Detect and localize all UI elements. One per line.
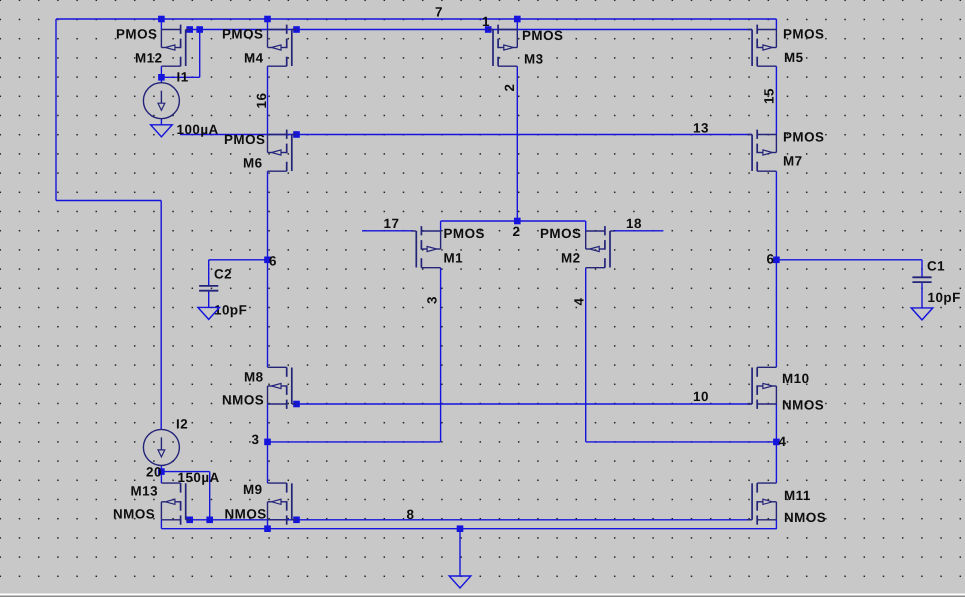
node 4 label rotated bbox=[572, 298, 587, 306]
wire C1 top lead bbox=[921, 260, 923, 278]
node 20 label bbox=[146, 465, 162, 480]
junction M12 gate bbox=[186, 26, 193, 33]
junction node 4 bbox=[773, 439, 780, 446]
node 6 label right bbox=[767, 252, 775, 267]
svg-text:15: 15 bbox=[762, 88, 777, 104]
transistor M12 bbox=[116, 25, 191, 67]
wire node 7 top rail bbox=[56, 18, 776, 20]
svg-text:I1: I1 bbox=[177, 70, 189, 85]
svg-text:3: 3 bbox=[252, 432, 260, 447]
svg-text:M3: M3 bbox=[524, 52, 544, 67]
wire node 20 to M13 drain bbox=[160, 472, 162, 484]
junction M13 gate bbox=[186, 517, 193, 524]
wire node 8 row bbox=[190, 519, 752, 521]
svg-text:8: 8 bbox=[407, 507, 415, 522]
transistor M3 bbox=[488, 25, 563, 67]
wire M10-M11 vertical bbox=[775, 404, 777, 483]
transistor M13 bbox=[113, 483, 191, 525]
wire C2 horizontal bbox=[209, 259, 268, 261]
svg-text:10: 10 bbox=[693, 389, 709, 404]
wire node 2 vertical bbox=[516, 66, 518, 221]
svg-text:PMOS: PMOS bbox=[783, 27, 824, 42]
ground below C1 bbox=[911, 308, 933, 320]
node 2 label rotated bbox=[502, 84, 517, 92]
wire to I2 top bbox=[160, 201, 162, 430]
node 13 label bbox=[693, 121, 709, 136]
wire node 4 horizontal bbox=[586, 441, 777, 443]
svg-text:10pF: 10pF bbox=[214, 303, 247, 318]
wire left feedback vertical bbox=[55, 19, 57, 201]
wire C1 bottom lead bbox=[921, 282, 923, 308]
junction M4 source on rail bbox=[264, 16, 271, 23]
svg-text:PMOS: PMOS bbox=[444, 226, 485, 241]
wire M5 source lead bbox=[775, 19, 777, 30]
node 17 label bbox=[384, 216, 400, 231]
svg-text:M2: M2 bbox=[561, 251, 581, 266]
wire node 3 horizontal bbox=[267, 441, 441, 443]
transistor M5 bbox=[747, 25, 824, 67]
svg-text:PMOS: PMOS bbox=[522, 28, 563, 43]
transistor M8 bbox=[222, 367, 297, 409]
svg-text:4: 4 bbox=[572, 298, 587, 306]
node 3 label bbox=[252, 432, 260, 447]
node 4 label bbox=[779, 434, 787, 449]
svg-text:M11: M11 bbox=[784, 488, 811, 503]
svg-text:150µA: 150µA bbox=[178, 470, 220, 485]
svg-text:NMOS: NMOS bbox=[225, 507, 267, 522]
node 6 label left bbox=[269, 254, 277, 269]
junction node 3 bbox=[264, 439, 271, 446]
wire M1 source bend bbox=[440, 221, 442, 231]
wire node 6 right vertical bbox=[775, 171, 777, 367]
wire M4 source lead bbox=[267, 19, 269, 30]
svg-text:PMOS: PMOS bbox=[783, 130, 824, 145]
svg-text:20: 20 bbox=[146, 465, 162, 480]
svg-text:NMOS: NMOS bbox=[222, 393, 264, 408]
svg-text:100µA: 100µA bbox=[177, 122, 219, 137]
current source I2 bbox=[143, 417, 219, 486]
junction node 20 bbox=[158, 468, 165, 475]
wire left feedback horizontal bbox=[56, 200, 161, 202]
svg-text:6: 6 bbox=[269, 254, 277, 269]
junction diode bottom bbox=[206, 517, 213, 524]
transistor M10 bbox=[747, 367, 824, 412]
svg-text:M8: M8 bbox=[244, 370, 264, 385]
svg-text:18: 18 bbox=[626, 216, 642, 231]
junction node 2 bbox=[514, 218, 521, 225]
node 8 label bbox=[407, 507, 415, 522]
wire M13 source down bbox=[160, 520, 162, 529]
junction M3 source on rail bbox=[514, 16, 521, 23]
junction M12 source on rail bbox=[158, 16, 165, 23]
svg-text:M10: M10 bbox=[782, 371, 810, 386]
ground main bbox=[449, 576, 471, 588]
svg-text:NMOS: NMOS bbox=[782, 398, 824, 413]
wire node 16 M4-M6 bbox=[267, 66, 269, 134]
transistor M4 bbox=[222, 25, 297, 67]
wire M12 diode vertical bbox=[199, 30, 201, 78]
transistor M11 bbox=[747, 483, 826, 525]
svg-text:PMOS: PMOS bbox=[540, 226, 581, 241]
wire C2 top lead bbox=[208, 260, 210, 286]
transistor M2 bbox=[540, 226, 615, 268]
wire C1 horizontal bbox=[776, 259, 922, 261]
current source I1 bbox=[143, 70, 218, 138]
node 7 label bbox=[435, 5, 443, 20]
svg-text:M13: M13 bbox=[131, 484, 159, 499]
wire M12 source lead bbox=[160, 19, 162, 30]
svg-text:M6: M6 bbox=[243, 156, 263, 171]
svg-text:2: 2 bbox=[513, 224, 521, 239]
svg-text:I2: I2 bbox=[176, 417, 188, 432]
junction ground stub bbox=[457, 525, 464, 532]
node 10 label bbox=[693, 389, 709, 404]
ground below C2 bbox=[198, 307, 220, 319]
svg-text:M7: M7 bbox=[783, 154, 803, 169]
node 15 label bbox=[762, 88, 777, 104]
svg-text:17: 17 bbox=[384, 216, 400, 231]
svg-text:M4: M4 bbox=[244, 51, 264, 66]
junction M8 gate bbox=[293, 401, 300, 408]
svg-text:M1: M1 bbox=[444, 251, 464, 266]
transistor M7 bbox=[747, 130, 824, 172]
svg-text:M9: M9 bbox=[243, 482, 263, 497]
wire node 20 diode vertical bbox=[209, 472, 211, 520]
wire M12 drain to I1 bbox=[160, 66, 162, 83]
wire node 18 stub bbox=[613, 230, 663, 232]
svg-text:PMOS: PMOS bbox=[222, 27, 263, 42]
wire node 13 row bbox=[180, 134, 752, 136]
wire ground stub bbox=[459, 529, 461, 576]
capacitor C1 bbox=[912, 259, 960, 306]
wire node 10 row bbox=[297, 403, 753, 405]
wire I1 to ground bbox=[160, 119, 162, 125]
svg-text:6: 6 bbox=[767, 252, 775, 267]
wire I2 to node 20 bbox=[160, 465, 162, 471]
node 16 label bbox=[254, 93, 269, 109]
wire M2 source bend bbox=[585, 221, 587, 231]
svg-text:M5: M5 bbox=[784, 50, 804, 65]
junction M9 source on rail bbox=[264, 525, 271, 532]
svg-text:NMOS: NMOS bbox=[113, 507, 155, 522]
ground below I1 bbox=[151, 125, 173, 137]
node 18 label bbox=[626, 216, 642, 231]
svg-text:7: 7 bbox=[435, 5, 443, 20]
junction M3 gate bbox=[485, 26, 492, 33]
svg-text:C2: C2 bbox=[214, 267, 232, 282]
junction M6 gate bbox=[293, 131, 300, 138]
node 3 label rotated bbox=[425, 296, 440, 304]
wire node 1 gate row bbox=[190, 29, 752, 31]
junction diode top bbox=[196, 26, 203, 33]
wire C2 bottom lead bbox=[208, 291, 210, 308]
svg-text:3: 3 bbox=[425, 296, 440, 304]
svg-text:4: 4 bbox=[779, 434, 787, 449]
svg-text:PMOS: PMOS bbox=[116, 27, 157, 42]
node 2 label bbox=[513, 224, 521, 239]
svg-text:16: 16 bbox=[254, 93, 269, 109]
wire node 2 horizontal bbox=[441, 220, 586, 222]
node 1 label bbox=[482, 14, 490, 29]
wire ground rail bbox=[161, 528, 777, 530]
wire M3 source lead bbox=[516, 19, 518, 30]
junction C1 tap bbox=[773, 257, 780, 264]
window bottom edge bbox=[0, 594, 965, 597]
wire node 6 left vertical bbox=[267, 171, 269, 367]
wire M1 drain down bbox=[440, 268, 442, 442]
wire M11 source down bbox=[775, 520, 777, 529]
capacitor C2 bbox=[199, 267, 247, 318]
svg-text:C1: C1 bbox=[927, 259, 945, 274]
junction M4 gate bbox=[293, 26, 300, 33]
wire node 20 horizontal bbox=[161, 76, 199, 78]
svg-text:PMOS: PMOS bbox=[224, 132, 265, 147]
svg-text:M12: M12 bbox=[135, 51, 163, 66]
wire M9 source down bbox=[267, 520, 269, 529]
svg-text:13: 13 bbox=[693, 121, 709, 136]
transistor M6 bbox=[224, 130, 297, 172]
wire node 15 M5-M7 bbox=[775, 66, 777, 134]
wire node 20 horizontal bbox=[161, 471, 209, 473]
wire M2 drain down bbox=[585, 268, 587, 442]
wire node 17 stub bbox=[362, 230, 413, 232]
transistor M9 bbox=[225, 482, 297, 525]
transistor M1 bbox=[411, 226, 485, 268]
junction node 20 top bbox=[158, 74, 165, 81]
wire M8-M9 vertical bbox=[267, 404, 269, 483]
svg-text:2: 2 bbox=[502, 84, 517, 92]
svg-text:1: 1 bbox=[482, 14, 490, 29]
svg-text:10pF: 10pF bbox=[928, 290, 961, 305]
junction C2 tap bbox=[264, 257, 271, 264]
junction M9 gate bbox=[293, 517, 300, 524]
svg-text:NMOS: NMOS bbox=[784, 510, 826, 525]
